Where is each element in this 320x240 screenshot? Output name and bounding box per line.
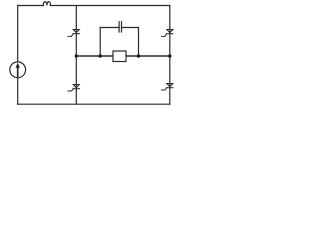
node D junction dot [168,54,171,57]
inductor L1 [43,2,50,6]
wire left border lower [17,78,19,105]
capacitor C1 [119,22,121,32]
node B junction dot [99,54,102,57]
wire snubber left leg [99,28,101,57]
node C junction dot [137,54,140,57]
thyristor SCR2 [162,30,174,37]
wire snubber top left [100,27,119,29]
wire middle horizontal [76,55,170,57]
wire top-right segment [51,5,170,7]
wire left border upper [17,6,19,62]
wire snubber right leg [138,28,140,57]
thyristor SCR4 [162,84,174,91]
wire middle vertical [75,6,77,105]
current source I1 [10,62,26,78]
node A junction dot [75,54,78,57]
wire top-left segment [18,5,44,7]
wire right border [169,6,171,105]
resistor R1 [113,51,126,62]
thyristor SCR3 [68,85,80,92]
wire snubber top right [122,27,139,29]
thyristor SCR1 [68,30,80,37]
wire bottom [18,103,170,105]
